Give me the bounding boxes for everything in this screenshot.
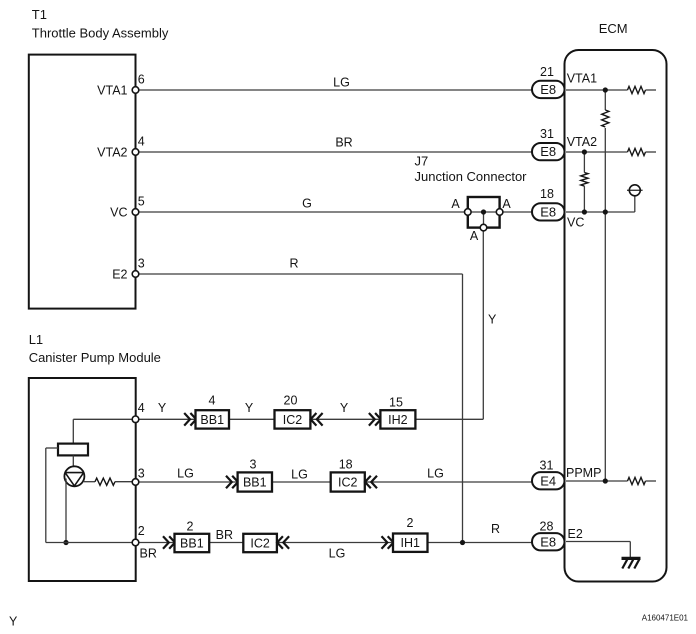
svg-text:E4: E4 — [540, 473, 556, 488]
svg-text:VC: VC — [567, 216, 584, 230]
svg-text:ECM: ECM — [599, 21, 628, 36]
svg-text:31: 31 — [540, 459, 554, 473]
svg-text:IC2: IC2 — [283, 413, 303, 427]
svg-text:BB1: BB1 — [243, 476, 267, 490]
svg-text:BB1: BB1 — [180, 537, 204, 551]
svg-text:15: 15 — [389, 396, 403, 410]
svg-text:BR: BR — [140, 547, 157, 561]
svg-text:LG: LG — [333, 76, 350, 90]
svg-text:L1: L1 — [29, 332, 43, 347]
svg-text:VTA1: VTA1 — [97, 84, 127, 98]
svg-text:E8: E8 — [540, 204, 556, 219]
svg-text:A: A — [502, 197, 511, 211]
svg-text:28: 28 — [540, 520, 554, 534]
svg-text:3: 3 — [138, 467, 145, 481]
svg-text:BR: BR — [335, 136, 352, 150]
svg-text:2: 2 — [407, 516, 414, 530]
svg-text:E2: E2 — [112, 268, 127, 282]
svg-text:IH1: IH1 — [401, 536, 421, 550]
svg-text:LG: LG — [177, 467, 194, 481]
svg-text:A: A — [470, 229, 479, 243]
svg-text:BB1: BB1 — [200, 413, 224, 427]
svg-text:IC2: IC2 — [338, 476, 358, 490]
svg-text:5: 5 — [138, 194, 145, 208]
svg-text:R: R — [289, 257, 298, 271]
svg-text:Junction Connector: Junction Connector — [415, 169, 528, 184]
svg-text:LG: LG — [291, 468, 308, 482]
svg-text:6: 6 — [138, 72, 145, 86]
svg-text:LG: LG — [427, 467, 444, 481]
svg-text:Y: Y — [158, 401, 167, 415]
svg-text:IC2: IC2 — [250, 537, 270, 551]
svg-text:E2: E2 — [568, 527, 583, 541]
svg-text:J7: J7 — [415, 154, 429, 169]
svg-text:BR: BR — [216, 528, 233, 542]
svg-text:4: 4 — [138, 134, 145, 148]
svg-text:PPMP: PPMP — [566, 466, 601, 480]
svg-text:3: 3 — [138, 256, 145, 270]
svg-text:Y: Y — [488, 313, 497, 327]
svg-text:Y: Y — [9, 615, 18, 629]
svg-text:21: 21 — [540, 65, 554, 79]
svg-text:18: 18 — [540, 187, 554, 201]
svg-text:VTA2: VTA2 — [567, 135, 597, 149]
svg-text:VTA1: VTA1 — [567, 72, 597, 86]
svg-text:2: 2 — [138, 524, 145, 538]
svg-text:Y: Y — [340, 401, 349, 415]
svg-text:IH2: IH2 — [388, 413, 408, 427]
svg-text:20: 20 — [284, 394, 298, 408]
svg-text:E8: E8 — [540, 144, 556, 159]
svg-text:4: 4 — [138, 401, 145, 415]
svg-text:31: 31 — [540, 127, 554, 141]
svg-text:E8: E8 — [540, 82, 556, 97]
svg-text:Canister Pump Module: Canister Pump Module — [29, 350, 161, 365]
svg-text:VTA2: VTA2 — [97, 146, 127, 160]
svg-text:Y: Y — [245, 401, 254, 415]
svg-text:VC: VC — [110, 206, 127, 220]
svg-text:A160471E01: A160471E01 — [642, 614, 689, 623]
svg-text:T1: T1 — [32, 7, 47, 22]
svg-text:4: 4 — [209, 394, 216, 408]
svg-text:E8: E8 — [540, 534, 556, 549]
svg-text:A: A — [451, 197, 460, 211]
svg-text:3: 3 — [250, 458, 257, 472]
svg-text:2: 2 — [187, 520, 194, 534]
svg-text:LG: LG — [329, 547, 346, 561]
svg-text:R: R — [491, 522, 500, 536]
svg-text:18: 18 — [339, 458, 353, 472]
svg-text:G: G — [302, 197, 312, 211]
svg-text:Throttle Body Assembly: Throttle Body Assembly — [32, 26, 169, 41]
